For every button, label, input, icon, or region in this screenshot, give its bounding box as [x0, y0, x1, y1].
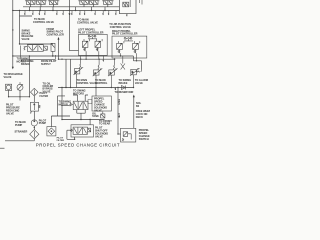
solenoid valve V6 [102, 1, 114, 5]
svg-text:TO REAR: TO REAR [99, 123, 110, 126]
svg-text:MAIN: MAIN [118, 99, 121, 105]
wires below speed change valve [77, 110, 85, 120]
check valve at right of brake valve [51, 43, 55, 56]
label TO RESERVOIR [115, 91, 134, 94]
pilot valve PV4 right [130, 69, 142, 88]
trunk from bus down left [62, 88, 105, 125]
bus1-bus2 connectors [30, 7, 105, 11]
plugged port X symbol [121, 56, 125, 70]
svg-text:CONTROL VALVE: CONTROL VALVE [110, 26, 131, 29]
wire to strainer [33, 126, 35, 130]
enclosure around brake valve [21, 46, 56, 60]
swing controller drop wire [58, 38, 59, 59]
jib function box [119, 0, 142, 16]
pilot shutoff valve enclosure [71, 125, 94, 137]
label: TO MAIN CONTROL VALVE (left) [33, 18, 54, 24]
label: PILOT SHUT-OFF SOLENOID VALVE [95, 127, 108, 139]
left trunk 2 [20, 11, 33, 45]
vertical text MAIN [118, 99, 121, 119]
wire down from reducing valve [33, 111, 35, 120]
feed line B [59, 58, 115, 60]
solenoid valve V3 [48, 1, 60, 5]
pilot filter diamond [31, 88, 39, 96]
svg-text:CONTROL: CONTROL [95, 82, 108, 85]
small stub between PV2 PV3 [102, 56, 105, 62]
svg-text:CONTROLLER: CONTROLLER [47, 33, 65, 36]
reservoir riser [133, 95, 134, 128]
pilot valve PV2 [93, 59, 102, 87]
svg-text:VALVE: VALVE [95, 136, 103, 139]
solenoid valve V4 [78, 1, 90, 5]
svg-text:LINE: LINE [118, 113, 120, 119]
label above right [99, 120, 112, 126]
svg-text:PILOT CONTROLLER: PILOT CONTROLLER [112, 33, 138, 36]
left trunk 1 [12, 0, 13, 69]
svg-text:TANK: TANK [92, 115, 99, 118]
label TO MAIN PUMP [15, 121, 26, 127]
label TO SOLENOID VALVE [4, 73, 23, 79]
svg-text:PUMP: PUMP [15, 124, 23, 127]
label: PILOT PRESSURE REDUCING VALVE [6, 104, 20, 116]
label: FROM SWING PILOT CONTROLLER [47, 28, 65, 37]
svg-text:MOTOR: MOTOR [17, 60, 26, 63]
drop stubs with arrows below bus2 [24, 11, 116, 16]
label TO OIL COOLER [43, 82, 54, 93]
strainer 2 / pilot filter box [47, 127, 56, 136]
pressure reducing valve [31, 102, 41, 113]
wire from top edge [69, 0, 79, 51]
drain wires into bus [66, 59, 71, 87]
label PILOT FILTER [40, 92, 49, 98]
pilot valve PV3 [108, 59, 117, 87]
right propel pilot controller label [112, 30, 138, 36]
wires under shutoff valve [67, 130, 75, 139]
junction dot on trunk1 [12, 29, 13, 30]
svg-text:SUPPLY: SUPPLY [41, 63, 51, 66]
valve drop wires to bus1 [31, 5, 108, 7]
wire into switch box [118, 133, 121, 135]
svg-text:MOTOR: MOTOR [59, 104, 68, 107]
svg-text:BRAKE: BRAKE [119, 82, 128, 85]
svg-text:CONTROL VALVE: CONTROL VALVE [33, 21, 54, 24]
svg-text:CONTROL VALVE: CONTROL VALVE [77, 21, 98, 24]
filter to reducing valve wire [33, 96, 35, 102]
svg-text:SWITCH: SWITCH [139, 138, 149, 141]
pressure switch box [121, 128, 136, 142]
center label TO SWING MOTORS [73, 90, 86, 96]
svg-text:VALVE: VALVE [43, 90, 51, 93]
label block right [136, 110, 151, 119]
labels under PV4 [119, 79, 148, 85]
wire PV2 output into box [95, 88, 97, 97]
labels under brake valve [21, 60, 34, 66]
junction dots on bus2 [12, 10, 106, 11]
label box: propel speed change solenoid valve [92, 96, 111, 111]
propel speed change valve [70, 100, 92, 110]
solenoid valve V2 [36, 1, 47, 5]
svg-text:PILOT CONTROLLER: PILOT CONTROLLER [78, 31, 104, 34]
pilot shutoff solenoid valve [71, 127, 91, 134]
pilot valve PV1 [74, 56, 83, 88]
strainer diamond [30, 130, 39, 139]
svg-text:VALVE: VALVE [22, 38, 30, 41]
dots on feed lines [12, 55, 121, 60]
pump collect line [9, 90, 30, 100]
wire to brake valve [20, 43, 53, 45]
bus line 2 [13, 10, 120, 12]
label SOL B2 [136, 102, 142, 108]
left propel pilot controller [79, 34, 108, 59]
swing brake release valve body [24, 45, 48, 52]
label: TO JIB FUNCTION CONTROL VALVE [109, 23, 131, 29]
feed line A [13, 55, 134, 57]
label TO SWING MOTOR left [17, 58, 30, 64]
solenoid valve V1 [25, 1, 37, 5]
label under PV1 [77, 79, 98, 85]
label: swing brake release valve [22, 30, 34, 41]
small drain valve under label box [101, 112, 105, 119]
svg-text:VALVE: VALVE [135, 82, 143, 85]
label: TO MAIN CONTROL VALVE (mid) [77, 18, 98, 24]
check valve on bus [122, 86, 126, 90]
pump circle bottom [31, 120, 37, 126]
svg-text:PROPEL SPEED CHANGE CIRCUIT: PROPEL SPEED CHANGE CIRCUIT [36, 142, 120, 147]
right side feed corner [133, 56, 141, 70]
svg-text:DECK: DECK [136, 116, 143, 119]
right enclosure line [117, 88, 119, 134]
main lower bus [58, 87, 134, 89]
riser from feed line to pump area [28, 56, 30, 97]
svg-text:VALVE: VALVE [6, 113, 14, 116]
svg-text:TO RESERVOIR: TO RESERVOIR [115, 91, 134, 94]
label PILOT PUMP [39, 119, 47, 125]
right propel pilot controller [112, 36, 147, 61]
propel speed change valve feeds [73, 95, 88, 101]
label: PRESSURE SWITCH [139, 129, 150, 141]
label STRAINER [15, 130, 28, 133]
page corner artifact [0, 147, 5, 149]
bus line 1 [23, 6, 120, 8]
wires to filter 2 [51, 96, 70, 127]
label under PV2 [95, 79, 108, 85]
pump box left [6, 84, 12, 90]
svg-text:STRAINER: STRAINER [15, 130, 28, 133]
pump circle with arrow [17, 82, 23, 90]
left propel pilot controller label [78, 29, 104, 35]
solenoid valve V5 [90, 1, 100, 5]
svg-text:FILTER: FILTER [40, 95, 49, 98]
wire strainer to reservoir [5, 139, 34, 141]
svg-text:VALVE: VALVE [4, 76, 12, 79]
svg-text:PUMP: PUMP [39, 122, 47, 125]
